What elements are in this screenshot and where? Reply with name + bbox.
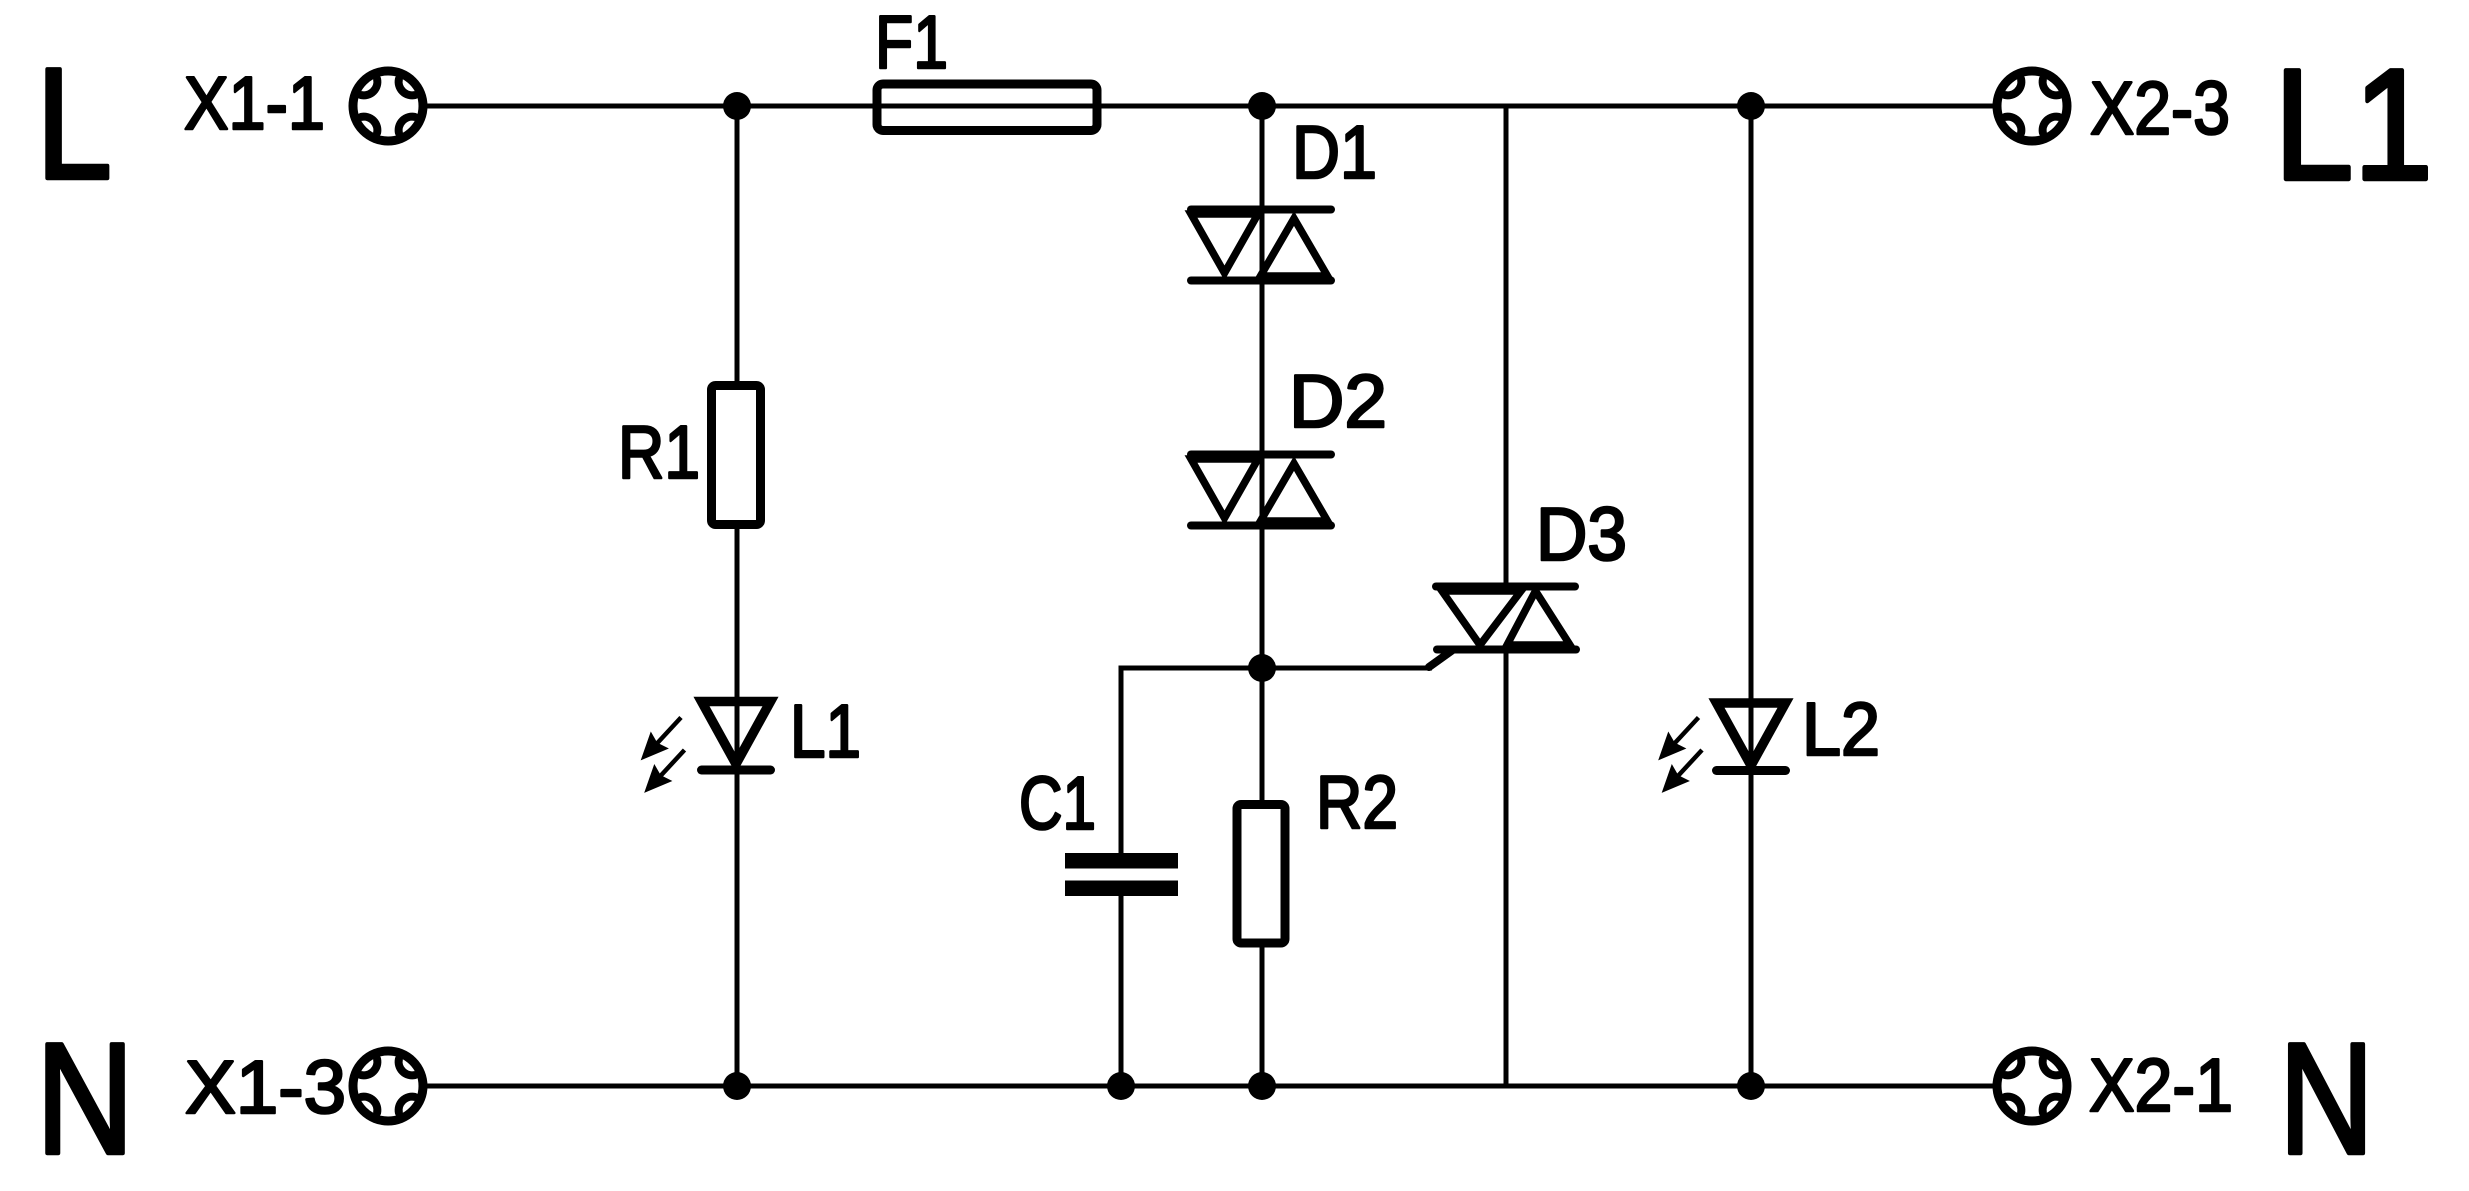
- svg-text:L2: L2: [1802, 687, 1880, 771]
- svg-text:R1: R1: [618, 410, 700, 494]
- terminal X1-1: [353, 71, 423, 141]
- junction bottom at R2 branch: [1248, 1072, 1276, 1100]
- svg-text:X2-3: X2-3: [2090, 66, 2230, 150]
- svg-text:F1: F1: [875, 0, 948, 84]
- svg-text:L1: L1: [2274, 37, 2433, 213]
- junction bottom at L2 branch: [1737, 1072, 1765, 1100]
- svg-text:X1-3: X1-3: [185, 1045, 346, 1129]
- svg-text:R2: R2: [1316, 760, 1398, 844]
- terminal X1-3: [353, 1051, 423, 1121]
- wire C1 branch horizontal and down: [1121, 668, 1262, 853]
- wire L2 branch: [1749, 106, 1754, 1086]
- wire D3 gate: [1263, 666, 1432, 671]
- resistor R1: [712, 386, 761, 525]
- svg-text:D2: D2: [1289, 359, 1387, 443]
- wire D3 branch upper: [1504, 106, 1509, 584]
- triac D3: [1429, 587, 1576, 668]
- wire R1 branch lower through LED L1: [735, 529, 740, 1086]
- terminal X2-3: [1997, 71, 2067, 141]
- wire bottom rail N: [427, 1084, 1994, 1089]
- wire D3 branch lower: [1504, 652, 1509, 1086]
- capacitor C1 plate bottom: [1065, 881, 1178, 897]
- capacitor C1 plate top: [1065, 853, 1178, 869]
- svg-text:C1: C1: [1019, 761, 1096, 845]
- junction top at L2 branch: [1737, 92, 1765, 120]
- LED L1: [642, 702, 771, 793]
- wire top rail L: [426, 104, 1994, 109]
- wire C1 to bottom rail: [1119, 896, 1124, 1086]
- wire R2 to bottom rail: [1260, 947, 1265, 1086]
- fuse F1: [877, 84, 1097, 131]
- junction top at R1 branch: [723, 92, 751, 120]
- svg-text:N: N: [36, 1011, 134, 1187]
- svg-text:D1: D1: [1292, 110, 1377, 194]
- svg-text:D3: D3: [1536, 492, 1627, 576]
- diac D2: [1191, 455, 1331, 526]
- svg-text:X1-1: X1-1: [184, 61, 325, 145]
- svg-text:X2-1: X2-1: [2089, 1043, 2233, 1127]
- diac D1: [1191, 210, 1331, 281]
- wire D1 D2 branch: [1260, 106, 1265, 800]
- resistor R2: [1237, 805, 1285, 944]
- svg-text:L1: L1: [790, 689, 861, 773]
- svg-text:L: L: [36, 36, 112, 212]
- LED L2: [1659, 703, 1786, 792]
- terminal X2-1: [1997, 1051, 2067, 1121]
- wire R1 branch upper: [735, 106, 740, 381]
- svg-text:N: N: [2279, 1011, 2374, 1187]
- junction bottom at C1 branch: [1107, 1072, 1135, 1100]
- junction bottom at R1 branch: [723, 1072, 751, 1100]
- junction gate node: [1248, 654, 1276, 682]
- junction top at D1 branch: [1248, 92, 1276, 120]
